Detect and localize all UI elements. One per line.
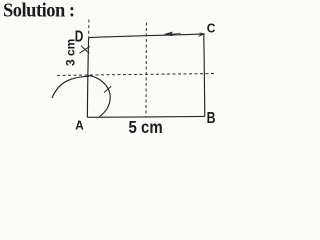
vertical dashed construction line <box>145 23 147 117</box>
horizontal dashed construction line <box>57 74 216 76</box>
side AD (left edge of rectangle) <box>87 38 88 118</box>
circle arc through A region <box>87 75 110 117</box>
tick mark crossing circle arc <box>104 86 111 92</box>
side DC (top edge of rectangle) <box>89 34 204 38</box>
svg-text:Solution :: Solution : <box>3 0 75 22</box>
svg-text:B: B <box>207 109 216 127</box>
left compass arc <box>52 76 89 98</box>
X tick mark on side AD <box>80 46 90 54</box>
svg-text:3 cm: 3 cm <box>64 39 78 66</box>
svg-text:5 cm: 5 cm <box>129 118 163 137</box>
side CB (right edge of rectangle) <box>204 34 205 116</box>
svg-text:A: A <box>75 118 84 133</box>
arrowhead at corner C <box>199 33 205 36</box>
svg-text:C: C <box>207 21 216 36</box>
dashed segment above point D <box>88 20 90 38</box>
side AB (bottom edge of rectangle) <box>87 115 204 118</box>
arrow mark on top edge <box>165 32 182 36</box>
